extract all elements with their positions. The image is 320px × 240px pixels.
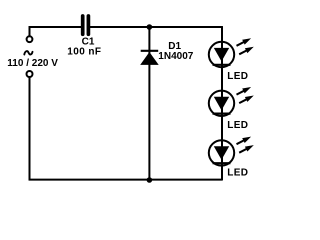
node junction top (147, 24, 153, 30)
AC sine symbol (24, 51, 32, 54)
svg-text:LED: LED (227, 71, 248, 82)
diode D1 (140, 51, 159, 65)
LED2 arrows (237, 87, 254, 103)
svg-text:100 nF: 100 nF (67, 46, 101, 57)
LED1 arrows (237, 38, 254, 54)
wire top horizontal right segment (90, 26, 223, 28)
svg-text:1N4007: 1N4007 (158, 51, 193, 62)
wire diode branch vertical (148, 27, 150, 180)
wire left stub to top terminal (29, 26, 31, 36)
svg-text:LED: LED (227, 168, 248, 179)
AC source terminal bottom (27, 71, 33, 77)
svg-text:110 / 220 V: 110 / 220 V (7, 58, 58, 69)
wire top horizontal left segment (29, 26, 81, 28)
wire left vertical from bottom terminal (29, 77, 31, 180)
LED3 arrows (237, 137, 254, 153)
node junction bottom (147, 177, 153, 183)
LED1 circle (209, 42, 234, 67)
wire bottom horizontal (29, 179, 223, 181)
LED3 circle (209, 140, 234, 165)
LED2 circle (209, 91, 234, 116)
LED1 symbol (213, 48, 231, 65)
LED3 symbol (213, 146, 231, 163)
capacitor C1 (83, 16, 89, 34)
svg-text:LED: LED (227, 120, 248, 131)
wire LED branch vertical (221, 26, 223, 180)
LED2 symbol (213, 97, 231, 114)
AC source terminal top (27, 36, 33, 42)
